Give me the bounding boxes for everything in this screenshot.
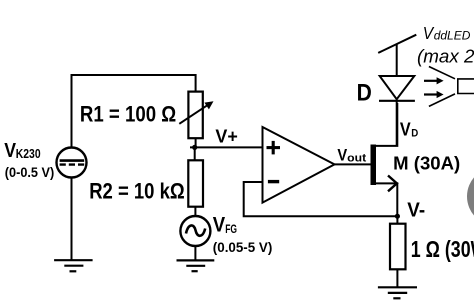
svg-text:1 Ω (30W: 1 Ω (30W — [411, 236, 474, 262]
fiber funnel upper diagonal — [429, 67, 455, 79]
transistor M gate bar — [371, 145, 377, 186]
light arrow 2 — [424, 91, 444, 98]
node V+ junction dot — [192, 145, 197, 150]
label R1 = 100 ohm — [80, 102, 176, 127]
label VddLED — [423, 23, 471, 43]
ground right — [378, 287, 417, 298]
label (0-0.5 V) — [5, 165, 55, 181]
label VD — [400, 119, 418, 140]
svg-text:K230: K230 — [16, 147, 41, 161]
svg-text:M (30A): M (30A) — [393, 154, 460, 174]
svg-text:D: D — [357, 80, 372, 107]
label VFG — [213, 213, 237, 237]
label R2 = 10 kohm — [89, 178, 185, 203]
label V+ — [215, 127, 237, 147]
wire V+ to op-amp noninverting input — [190, 146, 263, 148]
svg-text:ddLED: ddLED — [434, 29, 471, 43]
wire R1 to node V+ — [195, 138, 197, 147]
svg-text:V-: V- — [407, 199, 425, 222]
resistor R1 (variable) — [179, 92, 213, 139]
label (0.05-5 V) — [213, 240, 273, 256]
gray circle UI overlay — [467, 167, 474, 226]
wire op-amp output — [335, 163, 371, 165]
resistor 1 ohm — [390, 224, 406, 270]
label VK230 — [4, 139, 40, 162]
resistor R2 — [188, 160, 203, 206]
voltage source VK230 — [57, 148, 87, 178]
power rail VddLED slash — [378, 35, 416, 53]
wire LED cathode to drain — [396, 101, 398, 146]
wire VK230 to ground — [71, 178, 73, 261]
wire VddLED to LED anode — [396, 44, 398, 76]
wire R2 to VFG — [194, 207, 196, 217]
svg-text:V: V — [213, 213, 226, 237]
LED D — [379, 76, 415, 101]
wire V+ node to R2 — [194, 147, 196, 160]
svg-text:(0.05-5 V): (0.05-5 V) — [213, 240, 273, 256]
svg-text:V+: V+ — [215, 127, 237, 147]
fiber box — [458, 79, 474, 94]
wire resistor to ground — [396, 269, 398, 287]
svg-text:R1 = 100 Ω: R1 = 100 Ω — [80, 102, 176, 127]
label M (30A) — [393, 154, 460, 174]
svg-text:V: V — [400, 119, 411, 140]
transistor M source arrow — [388, 176, 397, 192]
wire V- to resistor — [396, 216, 398, 224]
light arrow 1 — [424, 77, 444, 84]
wire VFG to ground — [194, 246, 196, 260]
fiber funnel lower diagonal — [429, 94, 455, 107]
label Vout — [337, 146, 366, 165]
ground left — [54, 260, 93, 271]
source VFG (function generator) — [180, 216, 210, 246]
transistor M drain/source leads — [376, 103, 397, 216]
op-amp U1 — [263, 127, 335, 203]
label D — [357, 80, 372, 107]
node V- junction dot — [395, 214, 400, 219]
ground middle — [177, 260, 215, 271]
label (max 2 — [417, 47, 474, 67]
label V- — [407, 199, 425, 222]
svg-text:FG: FG — [225, 222, 237, 236]
wire top rail — [72, 75, 196, 148]
svg-text:out: out — [347, 153, 366, 165]
svg-text:D: D — [411, 128, 418, 140]
label 1 ohm (30W — [411, 236, 474, 262]
svg-text:(0-0.5 V): (0-0.5 V) — [5, 165, 55, 181]
svg-text:(max 2: (max 2 — [417, 47, 474, 67]
svg-text:R2 = 10 kΩ: R2 = 10 kΩ — [89, 178, 185, 203]
wire op-amp inverting input — [244, 182, 398, 216]
svg-text:V: V — [4, 139, 16, 162]
